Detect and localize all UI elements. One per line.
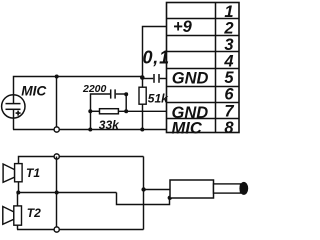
connector table row divider 2/3	[166, 35, 239, 37]
svg-text:T1: T1	[26, 166, 40, 180]
jack plug tip	[239, 182, 248, 195]
wire T2 top lead	[17, 193, 19, 206]
connector table X1 outer frame	[167, 3, 240, 133]
junction dot middle rail at x=56.9	[55, 191, 59, 195]
resistor 33k body	[100, 109, 119, 114]
junction dot 33k left node	[88, 109, 92, 113]
terminal open circle on bottom rail	[54, 227, 59, 232]
junction dot jack tip lug	[168, 196, 172, 200]
wire vertical x=56.9 mic loop	[56, 77, 58, 130]
connector table row divider 7/8	[166, 118, 239, 120]
svg-text:5: 5	[224, 69, 234, 87]
capacitor 2200 right plate	[114, 89, 116, 98]
wire 2200 corner down to 33k node	[125, 94, 127, 111]
capacitor 0,1 right plate	[158, 74, 160, 83]
connector table column divider	[215, 3, 217, 133]
svg-text:+9: +9	[173, 18, 193, 36]
connector table row divider 5/6	[166, 86, 239, 88]
svg-text:MIC: MIC	[21, 83, 47, 98]
junction dot common to jack sleeve	[141, 187, 145, 191]
connector table row divider 1/2	[166, 18, 239, 20]
svg-text:33k: 33k	[99, 118, 120, 132]
jack plug shaft	[214, 184, 241, 193]
capacitor 2200 right lead	[116, 93, 127, 95]
svg-text:T2: T2	[27, 206, 41, 220]
svg-text:51k: 51k	[148, 91, 169, 105]
headphone T2 cone	[3, 207, 14, 225]
resistor 51k body	[139, 87, 146, 104]
connector table row divider 6/7	[166, 102, 239, 104]
svg-text:6: 6	[224, 86, 234, 104]
junction dot 2200 right corner	[124, 92, 128, 96]
wire middle rail	[17, 192, 117, 194]
svg-text:MIC: MIC	[172, 119, 203, 137]
wire node A down to 51k top	[142, 78, 144, 88]
svg-text:2: 2	[223, 20, 233, 38]
wire middle rail step to jack tip lug	[117, 193, 170, 205]
capacitor 2200 left plate	[110, 89, 112, 98]
wire 51k bottom lead to mic bottom rail	[142, 104, 144, 129]
microphone MIC body circle	[2, 95, 25, 118]
junction dot node A	[140, 75, 145, 80]
capacitor 0,1 left plate	[153, 74, 155, 83]
microphone plus sign	[16, 111, 21, 116]
headphone T1 body	[15, 164, 23, 182]
svg-text:GND: GND	[172, 69, 209, 87]
microphone bottom plate	[6, 108, 21, 110]
wire +9 from node A to table pin 2	[143, 27, 167, 78]
junction dot T1 bottom on middle rail	[16, 191, 20, 195]
connector table row divider 3/4	[166, 51, 239, 53]
headphone T2 body	[14, 206, 22, 225]
wire T2 bottom lead	[17, 225, 19, 229]
resistor 33k left lead	[90, 110, 99, 112]
headphone T1 cone	[3, 164, 15, 182]
wire mic bottom lead	[13, 109, 15, 129]
connector table row divider 4/5	[166, 68, 239, 70]
wire mic top lead and top rail to node A	[14, 77, 143, 104]
svg-text:3: 3	[224, 36, 233, 54]
wire bottom rail of headphone section	[17, 229, 144, 231]
capacitor 0,1 left lead	[143, 78, 154, 80]
wire T1 top lead and top rail	[19, 157, 144, 164]
capacitor 0,1 right lead to GND pin 5	[160, 78, 167, 80]
wire common to jack body	[144, 189, 171, 191]
svg-text:1: 1	[224, 3, 233, 21]
junction dot 2200 branch on bottom rail	[88, 128, 92, 132]
svg-text:4: 4	[223, 52, 233, 70]
jack plug body	[170, 180, 214, 198]
svg-text:0,1: 0,1	[143, 48, 170, 68]
terminal open circle on top rail	[54, 154, 59, 159]
microphone top plate	[6, 103, 21, 105]
capacitor 2200 left branch from bottom rail	[91, 94, 111, 130]
terminal open circle on mic bottom rail	[54, 127, 59, 132]
svg-text:8: 8	[224, 119, 234, 137]
junction dot 51k lead on bottom rail	[140, 128, 144, 132]
junction dot mic top rail at x=56.9	[55, 75, 59, 79]
wire T1 bottom lead	[18, 182, 20, 193]
wire mic bottom rail to table MIC pin 8	[13, 129, 167, 131]
resistor 33k right lead and wire to GND pin 7	[118, 110, 166, 112]
svg-text:2200: 2200	[82, 83, 107, 95]
wire vertical common x=143.8	[143, 157, 145, 230]
wire vertical x=56.9 bottom section	[56, 157, 58, 230]
junction dot 33k right node	[124, 109, 128, 113]
